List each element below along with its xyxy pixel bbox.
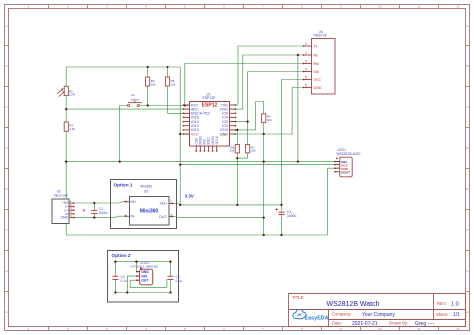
svg-text:OUT-: OUT- (159, 215, 168, 219)
svg-text:3.3V: 3.3V (185, 193, 194, 198)
svg-text:12: 12 (456, 5, 460, 9)
svg-text:B: B (466, 64, 468, 68)
svg-text:WS2812B Watch: WS2812B Watch (326, 301, 379, 308)
node GND C4 (280, 234, 282, 236)
wire RST row (140, 105, 190, 107)
svg-text:10: 10 (378, 327, 382, 331)
svg-text:F: F (6, 228, 8, 232)
node 5V C1 (93, 202, 95, 204)
svg-text:10k: 10k (151, 83, 156, 87)
node C3 bottom (169, 291, 171, 293)
node C3 top (169, 261, 171, 263)
wire top 3.3V rail (66, 67, 180, 86)
svg-text:GND: GND (60, 216, 68, 220)
node R6 R7 join (236, 157, 238, 159)
node GND C1 (93, 216, 95, 218)
Mini360 module U3 (125, 197, 173, 226)
wire LED VDD down to bottom rail (328, 168, 340, 235)
svg-text:Rx: Rx (314, 53, 319, 57)
wire ESP VCC to 3.3V (180, 133, 189, 135)
wire C3 stubs (170, 262, 172, 277)
svg-text:ESP12: ESP12 (202, 103, 218, 109)
svg-text:A: A (5, 24, 7, 28)
wire R5 stubs (167, 67, 169, 77)
node C2 bottom (114, 291, 116, 293)
node 3V3 C4 (280, 204, 282, 206)
svg-text:EasyEDA: EasyEDA (305, 315, 329, 321)
svg-text:B: B (5, 64, 7, 68)
header U6 (304, 30, 336, 94)
wire option2 top rail (115, 261, 170, 263)
svg-text:IO0: IO0 (314, 70, 320, 74)
option 2 box (108, 251, 179, 303)
svg-text:GND: GND (220, 132, 228, 136)
node GND left rail (65, 160, 67, 162)
svg-text:U3: U3 (144, 189, 148, 193)
node GND OUT- (263, 216, 265, 218)
svg-text:11: 11 (417, 5, 420, 9)
resistor R1 LDR (57, 86, 76, 96)
wire option2 bottom rail (115, 292, 170, 294)
svg-text:button: button (131, 97, 140, 101)
bottom pin stubs (196, 146, 217, 151)
wire TXD to header pin1 (230, 46, 304, 105)
pushbutton U4 (127, 93, 141, 107)
svg-text:HT7333-1_DB02H8: HT7333-1_DB02H8 (131, 264, 158, 268)
svg-text:1.0: 1.0 (451, 302, 459, 308)
svg-text:Sheet:: Sheet: (436, 312, 448, 317)
wire ADC row (66, 108, 189, 110)
svg-text:70553-06: 70553-06 (313, 33, 327, 37)
resistor R5 (165, 77, 176, 87)
svg-text:12: 12 (456, 327, 460, 331)
wire R6 R7 bottoms to 3.3V rail (236, 153, 238, 158)
svg-text:U4: U4 (131, 93, 135, 97)
wire LED VCC row (180, 164, 340, 166)
svg-text:10k: 10k (171, 83, 176, 87)
capacitor C2 (112, 275, 127, 283)
svg-text:H: H (5, 310, 7, 314)
pin connection dots (73, 45, 336, 281)
node IO15 R6 (236, 129, 238, 131)
svg-text:1/1: 1/1 (453, 312, 460, 318)
wire LDO VIN (127, 276, 139, 292)
svg-text:10k: 10k (267, 118, 272, 122)
wire GND long row (66, 161, 340, 163)
wire R2 stubs (147, 67, 149, 77)
svg-text:IN-: IN- (131, 215, 137, 219)
svg-text:10k: 10k (251, 149, 256, 153)
wire R4 bottom (263, 123, 265, 134)
wire R6 top (236, 130, 238, 145)
resistor R3 (64, 122, 75, 131)
svg-text:Greg ----: Greg ---- (415, 321, 435, 327)
wire ESP GND row to header pin6 (230, 88, 304, 135)
node R2 3V3 (147, 66, 149, 68)
svg-text:VCC: VCC (314, 78, 322, 82)
svg-text:Drawn By:: Drawn By: (389, 321, 408, 326)
wire C4 stubs (281, 205, 283, 212)
svg-text:2021-07-21: 2021-07-21 (352, 321, 378, 327)
wire button left to GND (120, 106, 128, 162)
wire EN row (168, 112, 190, 114)
node RST R2 (147, 104, 149, 106)
svg-text:1000u: 1000u (287, 214, 297, 218)
svg-text:DOUT: DOUT (341, 171, 350, 175)
node 3V3 rail out (179, 204, 181, 206)
svg-text:0.1u: 0.1u (176, 279, 182, 283)
svg-text:1000u: 1000u (99, 211, 108, 215)
svg-text:micro usb: micro usb (54, 193, 68, 197)
svg-text:Option 1: Option 1 (114, 182, 133, 187)
node LDO VIN rail (126, 291, 128, 293)
wire LDO GND (136, 262, 139, 272)
EasyEDA logo (293, 309, 329, 321)
wire C2 stubs (114, 262, 116, 277)
open pin dots (183, 112, 237, 152)
svg-text:IN+: IN+ (131, 200, 137, 204)
node branch GND row (297, 160, 299, 162)
left pin names (191, 103, 210, 136)
resistor R4 (262, 114, 273, 123)
micro usb U2 (52, 190, 75, 224)
svg-text:E: E (5, 187, 7, 191)
wire LDO OUT loop (130, 279, 167, 287)
svg-text:REV:: REV: (437, 301, 447, 306)
right pin stubs (230, 105, 236, 134)
svg-text:LDR: LDR (69, 93, 76, 97)
svg-text:WS2812B-4020: WS2812B-4020 (336, 152, 360, 156)
svg-text:Your Company: Your Company (362, 312, 395, 318)
svg-text:10: 10 (378, 5, 382, 9)
svg-text:11: 11 (417, 327, 420, 331)
wire OUT- row (172, 217, 264, 218)
resistor R2 (146, 77, 157, 87)
node button GND (119, 160, 121, 162)
LED1 WS2812B-4020 (334, 148, 360, 177)
node pullups 3V3 (236, 204, 238, 206)
node GND bottom rail (263, 234, 265, 236)
svg-text:6: 6 (305, 84, 307, 88)
right pin names (220, 103, 228, 136)
svg-text:ID: ID (65, 212, 68, 216)
node ADC divider (65, 108, 67, 110)
svg-text:Mini360: Mini360 (140, 209, 159, 215)
svg-text:4: 4 (305, 68, 307, 72)
wire IN- row (74, 216, 126, 217)
resistor R6 (229, 145, 239, 153)
svg-text:E: E (466, 187, 468, 191)
svg-text:A: A (466, 24, 468, 28)
svg-text:1: 1 (305, 42, 307, 46)
svg-text:TITLE:: TITLE: (292, 295, 305, 300)
node RST header (184, 104, 186, 106)
svg-text:F: F (467, 228, 469, 232)
left pin stubs (184, 105, 190, 134)
node 3V3 LED VCC (179, 163, 181, 165)
wire header Rx branch down (297, 55, 299, 162)
node IO0 R7 (246, 120, 248, 122)
svg-text:1.3k: 1.3k (69, 127, 75, 131)
node GND trunk row (263, 160, 265, 162)
svg-text:5: 5 (305, 76, 307, 80)
svg-text:H: H (466, 310, 468, 314)
node ESP VCC (179, 133, 181, 135)
capacitor C4 (275, 208, 296, 218)
svg-text:SCLK: SCLK (215, 135, 219, 144)
svg-text:2: 2 (305, 51, 307, 55)
wire header VCC down to 3.3V rail (282, 80, 304, 205)
svg-text:GND: GND (314, 86, 322, 90)
svg-text:VCC: VCC (191, 132, 199, 136)
svg-text:Company:: Company: (332, 312, 351, 317)
resistor R7 (246, 145, 257, 153)
svg-text:Tx: Tx (314, 44, 318, 48)
svg-text:10k: 10k (229, 149, 234, 153)
svg-text:0.1u: 0.1u (121, 279, 127, 283)
wire IO0 net (230, 121, 248, 123)
node R5 3V3 (166, 66, 168, 68)
wire C1 stubs (93, 203, 95, 210)
svg-text:OUT: OUT (141, 279, 149, 283)
node GND R4 (263, 133, 265, 135)
wire RXD to header pin2 (230, 55, 304, 109)
svg-text:Date:: Date: (332, 321, 342, 326)
ESP12 module U1 (183, 92, 237, 152)
svg-text:Mini360: Mini360 (141, 185, 153, 189)
wire IO15 net with jog to R4 (230, 102, 264, 130)
capacitor C1 polar (83, 207, 108, 215)
LDO regulator LDO1 (131, 261, 158, 285)
svg-text:Option 2: Option 2 (112, 253, 131, 258)
TITLE-BLOCK (289, 294, 466, 327)
capacitor C3 (167, 275, 182, 283)
option 1 box (111, 180, 177, 229)
node Rx branch (297, 54, 299, 56)
svg-text:GND: GND (141, 270, 149, 274)
bottom pin names vertical (194, 135, 219, 144)
svg-text:Out+: Out+ (160, 202, 168, 206)
wire left rail mid (65, 96, 67, 122)
wire left rail lower (66, 132, 327, 236)
node C2 top (114, 261, 116, 263)
wire IN+ row (74, 202, 126, 203)
svg-text:ESP12F: ESP12F (203, 96, 216, 100)
node LDO GND rail (135, 261, 137, 263)
svg-text:3: 3 (305, 60, 307, 64)
svg-text:Rst: Rst (314, 62, 319, 66)
wire GND trunk vertical (263, 134, 265, 235)
wire 3.3V distribution rail (172, 203, 282, 205)
